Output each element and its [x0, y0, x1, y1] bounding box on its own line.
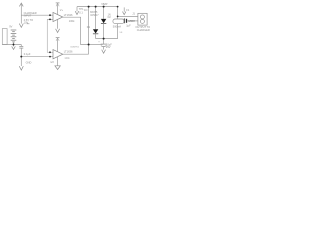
svg-text:1636 F01: 1636 F01	[70, 46, 79, 48]
svg-text:CHARGER: CHARGER	[137, 28, 150, 32]
wire connector bottom	[127, 20, 138, 22]
svg-text:D1: D1	[87, 25, 91, 29]
node flag arrow up left column	[19, 3, 23, 6]
wire vertical main node	[88, 7, 90, 55]
supply flag V+ op-amp2	[56, 37, 60, 39]
junction dots	[13, 6, 119, 58]
node arrow down to battery	[19, 24, 23, 28]
svg-text:GND: GND	[26, 60, 32, 64]
wire op-amp1 inverting stub	[47, 18, 53, 20]
svg-text:V+: V+	[60, 8, 64, 12]
wire connector top	[118, 15, 138, 17]
op-amp U1b triangle	[53, 50, 63, 59]
wire op-amp1 noninverting stub	[21, 14, 53, 16]
svg-text:INPUT: INPUT	[24, 13, 32, 17]
ground arrow battery	[13, 45, 15, 47]
svg-text:100k: 100k	[64, 57, 70, 60]
capacitor C2 polarized	[103, 39, 105, 44]
svg-text:VBAT: VBAT	[101, 2, 108, 6]
plus mark charger	[27, 23, 30, 25]
diode D2	[103, 7, 105, 19]
wire battery bottom stub	[13, 42, 15, 45]
fuse F1	[117, 7, 119, 19]
connector pin 1	[140, 15, 144, 19]
svg-text:1µF: 1µF	[126, 24, 131, 28]
wire op-amp2 output	[63, 53, 89, 55]
svg-text:1N5817: 1N5817	[90, 14, 99, 17]
svg-text:1N: 1N	[84, 8, 87, 12]
svg-text:LT1636: LT1636	[64, 13, 73, 17]
wire bottom mid rail to C2	[89, 44, 103, 46]
ground arrow left	[19, 66, 23, 70]
svg-text:10V: 10V	[24, 21, 29, 25]
wire top rail	[77, 6, 118, 8]
svg-text:LT1636: LT1636	[64, 49, 73, 53]
svg-text:25V: 25V	[106, 45, 111, 49]
wire op-amp2 V+ pin	[57, 38, 59, 52]
svg-text:1/2: 1/2	[50, 60, 54, 64]
capacitor C1	[20, 45, 22, 47]
capacitor C3	[123, 18, 125, 23]
value label texts	[9, 2, 150, 64]
svg-text:0.1µF: 0.1µF	[24, 52, 31, 56]
ground op-amp2	[55, 66, 60, 70]
svg-text:0.1: 0.1	[79, 11, 83, 15]
test point arrow TP	[76, 7, 78, 12]
connector pin 2	[140, 19, 144, 23]
svg-text:500mA: 500mA	[113, 24, 121, 28]
wire op-amp1 V+ pin	[57, 3, 59, 15]
wire left flag column vertical	[20, 3, 22, 23]
connector J1 box	[138, 13, 147, 25]
node arrow down V- op-amp1	[56, 29, 60, 33]
battery box B1	[2, 29, 7, 45]
ground arrow C2	[102, 50, 106, 54]
wire node A horizontal to op-amp 2 inverting input	[21, 56, 53, 58]
wire op-amp2 V- pin	[57, 57, 59, 66]
svg-text:100k: 100k	[69, 19, 75, 23]
wire bottom left rail	[2, 44, 21, 46]
svg-text:9V: 9V	[9, 24, 12, 28]
wire op-amp1 output	[63, 17, 89, 44]
wire mid horizontal	[96, 38, 118, 40]
wire op-amp1 V- pin	[57, 19, 59, 28]
battery BT1 cells	[11, 30, 17, 42]
supply flag V+ op-amp1	[56, 2, 60, 4]
wire feedback vertical	[47, 19, 53, 52]
node flag arrow right	[123, 7, 125, 11]
op-amp U1a triangle	[53, 12, 63, 21]
diode D1	[95, 7, 97, 30]
svg-text:MOV: MOV	[129, 19, 136, 23]
